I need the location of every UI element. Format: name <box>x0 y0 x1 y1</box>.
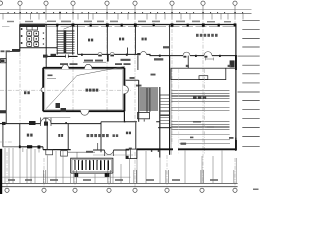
scan edge black bar <box>0 149 2 194</box>
partition stair1 right <box>72 25 74 55</box>
room label science activity <box>196 34 218 37</box>
wall: top exterior <box>20 24 237 26</box>
auditorium bottom thick wall <box>137 148 237 150</box>
door piers SE of courtyard <box>56 103 61 108</box>
door arc right room b <box>204 52 212 56</box>
stair1 center rail <box>64 30 67 52</box>
auditorium label <box>193 95 206 98</box>
courtyard wall left <box>42 68 44 111</box>
grid bubble 0 (left edge partial) <box>0 1 2 5</box>
door arc room 402 <box>110 52 114 54</box>
bottom grid bubble 7 <box>200 188 204 192</box>
courtyard inner thin outline <box>45 70 123 110</box>
bottom dim line 2 <box>0 186 238 188</box>
dashed row line left edge <box>0 141 12 143</box>
grid bubble 2 <box>44 1 48 5</box>
tick dots under wall <box>151 150 152 152</box>
bottom dim paired ticks <box>43 170 234 183</box>
bottom text smudges <box>8 179 218 181</box>
top wall piers <box>56 23 236 26</box>
courtyard wall bottom <box>43 110 124 112</box>
grid bubble 7 <box>201 1 205 5</box>
room label 402 <box>119 38 124 41</box>
auditorium left wall <box>169 56 171 155</box>
left porch <box>1 59 7 63</box>
portico columns <box>75 161 108 170</box>
library room wall left <box>100 122 102 152</box>
stair1 treads <box>57 31 75 53</box>
room label 401 <box>88 39 93 42</box>
entrance portico inner box <box>72 160 112 172</box>
top dimension text row <box>7 21 231 23</box>
bottom-left exterior wall (lower step) <box>43 149 71 151</box>
courtyard door arc top1 <box>62 65 69 68</box>
right margin leader lines <box>238 20 260 146</box>
library label <box>87 134 119 137</box>
wall: left exterior <box>5 51 7 123</box>
right side wall lower <box>235 138 237 150</box>
bottom grid bubble 1 <box>5 188 9 192</box>
pier at corridor left <box>12 49 20 52</box>
bottom-left partition 2 <box>46 124 48 150</box>
wall: right exterior <box>235 25 237 152</box>
courtyard door arc left <box>41 88 43 92</box>
pier left wall mid <box>0 110 7 113</box>
stair2 right wall <box>159 87 161 158</box>
door arcs below courtyard <box>41 118 47 124</box>
bottom dim extension ticks <box>5 148 236 183</box>
auditorium dashed axis <box>203 69 205 154</box>
wall between mid and bottom rooms <box>0 123 101 125</box>
door arc room 403 <box>141 51 147 54</box>
stage steps inner <box>199 76 208 80</box>
stair2 left wall <box>138 80 140 122</box>
room label 1# <box>24 91 30 94</box>
small dim mark left of courtyard <box>48 75 53 77</box>
courtyard label <box>86 89 99 92</box>
bottom grid bubble 6 <box>165 188 169 192</box>
wall stair2 top left <box>137 55 139 70</box>
partition room2 <box>106 25 108 55</box>
rooms south wall (corridor north) left part <box>78 54 236 55</box>
partition room1 <box>77 25 79 55</box>
bottom grid bubble 5 <box>133 188 137 192</box>
stair2 landing box <box>138 113 150 119</box>
bottom-left partition 3 <box>67 124 69 150</box>
courtyard door arc top2 <box>85 64 92 68</box>
label 141 <box>58 134 63 137</box>
entrance portico outer box <box>71 158 113 173</box>
courtyard door arc right <box>124 86 128 94</box>
wall stub below auditorium wall <box>136 149 138 158</box>
courtyard door arc bottom <box>81 111 89 115</box>
top wall dark band over toilet <box>20 24 45 27</box>
bottom grid bubble 4 <box>107 188 111 192</box>
door arc room 401 <box>98 52 102 54</box>
dim mark 1.4 <box>163 46 169 48</box>
partition room4 <box>169 25 171 56</box>
portico piers below <box>75 173 79 177</box>
entrance side box <box>126 149 137 159</box>
top dimension line inner <box>0 12 252 14</box>
bottom grid bubble 8 <box>233 188 237 192</box>
wall: left wing top <box>6 50 20 52</box>
recessed entry line <box>68 151 95 153</box>
partition toilet right <box>45 25 47 68</box>
courtyard wall top <box>43 67 124 69</box>
pier b <box>29 121 36 125</box>
stair2 shading <box>139 88 158 111</box>
grid bubble stubs <box>20 6 235 14</box>
grid bubble 8 <box>233 1 237 5</box>
top dimension line outer <box>0 9 252 11</box>
bottom dim line 1 <box>0 182 238 184</box>
step stoop b <box>61 151 68 156</box>
entrance door arcs <box>105 150 114 155</box>
grid bubble 4 <box>105 1 109 5</box>
bottom-right corner mark <box>253 189 259 191</box>
duct shafts <box>160 95 170 128</box>
courtyard ramp diagonal <box>46 66 125 108</box>
middle column wall above stair2 <box>126 79 139 81</box>
courtyard dim text a <box>60 63 78 65</box>
wall: lower-left exterior step <box>2 124 4 147</box>
auditorium rear thin lines <box>180 139 231 141</box>
bottom-left partition 1 <box>19 124 21 147</box>
bottom aux dim line <box>0 176 131 178</box>
label 1.038 <box>121 59 131 61</box>
stage wall vertical <box>187 56 189 69</box>
bottom-left exterior wall (upper step) <box>3 146 19 148</box>
corridor jog wall <box>127 48 129 55</box>
grid dashed horizontal D <box>0 89 131 91</box>
auditorium seat rows <box>172 90 230 101</box>
porch line bottom-left faint <box>44 117 71 119</box>
junction blobs near stair bottom <box>43 55 48 58</box>
portico bar dots <box>74 160 108 161</box>
entrance hall south wall <box>93 149 129 151</box>
courtyard dim text b <box>115 63 131 65</box>
right exterior dark segments <box>235 55 237 70</box>
grid bubble 3 <box>71 1 75 5</box>
stair2 treads <box>139 88 158 110</box>
bottom grid bubble 3 <box>73 188 77 192</box>
stair2 center rail <box>146 88 148 113</box>
bottom grid bubble 2 <box>42 188 46 192</box>
bottom wall piers <box>19 145 41 148</box>
wall spur below room partition <box>107 54 109 61</box>
pier a <box>2 122 6 125</box>
recess line top-left <box>2 26 9 28</box>
grid axis dashed verticals <box>20 6 235 183</box>
door arc right room a <box>183 52 190 55</box>
bottom grid dashed verticals <box>7 152 235 188</box>
label 142 <box>126 132 131 135</box>
text 1F8.1 <box>181 143 187 145</box>
courtyard wall right <box>123 68 125 111</box>
wall: upper-left exterior <box>19 25 21 52</box>
dim text 14 <box>130 74 156 87</box>
wall below stair hall <box>101 121 126 123</box>
top wall window line <box>20 26 236 28</box>
grid bubble 1 <box>18 1 22 5</box>
pier right corridor end <box>230 60 235 67</box>
top dimension tick dots <box>8 12 244 14</box>
wall below stair2 <box>124 121 159 123</box>
marks above auditorium wall <box>190 137 234 139</box>
grid bubble 6 <box>170 1 174 5</box>
partition stair1 left <box>56 25 58 55</box>
partition room3 <box>134 25 136 55</box>
wall mid-left vertical x129 <box>135 122 137 149</box>
toilet block south wall <box>20 47 57 49</box>
top dimension extension ticks <box>3 13 243 19</box>
grid bubble 5 <box>133 1 137 5</box>
room label 403 <box>142 38 147 41</box>
portico top dim text <box>86 151 93 153</box>
level annotation arrow corridor <box>83 61 106 63</box>
level text -0.450 <box>154 58 163 60</box>
toilet stall grid <box>27 26 38 30</box>
label 145 <box>27 134 33 137</box>
corridor south wall below stair <box>46 55 77 57</box>
stage platform <box>171 68 226 79</box>
level text left <box>1 50 11 52</box>
step stoop a <box>46 150 53 155</box>
